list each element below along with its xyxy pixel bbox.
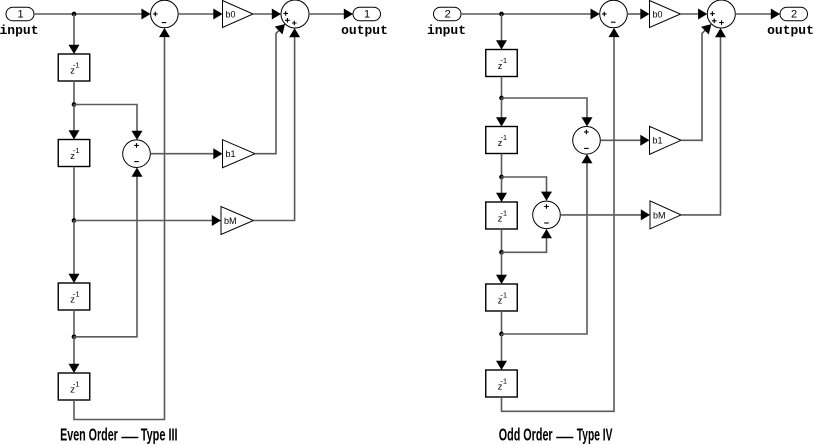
svg-text:b0: b0 bbox=[653, 9, 663, 19]
wire z1-R3 to junction H bbox=[501, 229, 503, 252]
arrow into adderR left bbox=[698, 9, 707, 20]
wire junction H to S3R bottom bbox=[502, 238, 547, 252]
arrow into z1-L4 top bbox=[69, 364, 80, 373]
wire adder to output bbox=[309, 13, 345, 15]
adder sumR (right output adder) bbox=[707, 0, 735, 28]
wire z1-L4 to sum1 bottom bbox=[74, 37, 165, 420]
arrow into bM left bbox=[212, 215, 221, 226]
node junction H bbox=[499, 250, 504, 255]
arrow into b0 left bbox=[213, 9, 222, 20]
svg-text:1: 1 bbox=[364, 9, 370, 21]
wire z1-R1 to junction F bbox=[501, 77, 503, 99]
arrow into z1-R4 top bbox=[496, 275, 507, 284]
sum1R (input subtractor right) bbox=[600, 0, 628, 28]
arrow into b1 left bbox=[213, 148, 222, 159]
svg-text:-1: -1 bbox=[73, 146, 80, 155]
wire b0 to adder bbox=[253, 13, 273, 15]
svg-text:input: input bbox=[0, 23, 39, 38]
wire junction G to subtractor S3R top bbox=[502, 177, 547, 193]
wire input to sum1 bbox=[34, 13, 143, 15]
svg-text:b1: b1 bbox=[653, 136, 663, 146]
svg-text:b0: b0 bbox=[226, 9, 236, 19]
svg-text:Type IV: Type IV bbox=[577, 426, 613, 445]
arrow into bMR left bbox=[641, 209, 650, 220]
wire S2R to b1R bbox=[600, 139, 641, 141]
gain b1 (left) bbox=[223, 140, 256, 168]
adder sum2 (left output adder) bbox=[281, 0, 309, 28]
svg-text:Type III: Type III bbox=[141, 426, 178, 445]
wire z1-L3 to junction D bbox=[73, 310, 75, 337]
arrow into b0R left bbox=[640, 9, 649, 20]
wire bM up to adder bottom bbox=[254, 37, 295, 221]
svg-text:-1: -1 bbox=[500, 376, 507, 385]
node junction B bbox=[72, 102, 77, 107]
arrow into b1R left bbox=[640, 135, 649, 146]
arrow into z1-R1 top bbox=[496, 40, 507, 49]
arrow into S1 bottom bbox=[132, 168, 143, 177]
node junction G bbox=[499, 175, 504, 180]
sum S2R (subtractor, b1 feed) bbox=[573, 127, 601, 155]
wire junction D down to z1-L4 bbox=[73, 337, 75, 365]
svg-text:b1: b1 bbox=[226, 149, 236, 159]
wire junction I down to z1-R5 bbox=[501, 334, 503, 362]
wire z1-R2 to junction G bbox=[501, 154, 503, 178]
wire b1R up to adderR diagonal bbox=[681, 30, 705, 140]
input port 1 (oval) bbox=[6, 7, 34, 21]
gain bM (right) bbox=[650, 201, 681, 229]
node junction D bbox=[72, 334, 77, 339]
delay block z1-R2 bbox=[486, 127, 518, 154]
output port 1 (oval) bbox=[353, 7, 381, 21]
wire z1-R5 to sum1R bottom bbox=[502, 37, 615, 411]
sum S1 (subtractor) bbox=[123, 140, 151, 168]
wire bMR up to adderR bottom bbox=[681, 37, 721, 215]
svg-text:output: output bbox=[767, 23, 814, 38]
arrow into z1-R5 top bbox=[496, 361, 507, 370]
wire junction H down to z1-R4 bbox=[501, 252, 503, 276]
svg-text:bM: bM bbox=[224, 216, 237, 226]
arrow into output port 2 bbox=[771, 9, 780, 20]
wire junction A down to z1-L1 bbox=[73, 14, 75, 46]
wire junction G down to z1-R3 bbox=[501, 177, 503, 194]
arrow into z1-L1 top bbox=[69, 45, 80, 54]
input port 2 (oval) bbox=[434, 7, 462, 21]
wire z1-L1 to junction B bbox=[73, 81, 75, 105]
delay block z1-L1 bbox=[58, 54, 90, 81]
delay block z1-R3 bbox=[486, 202, 518, 229]
svg-text:-1: -1 bbox=[500, 133, 507, 142]
arrow into adder bottom bbox=[289, 28, 300, 37]
gain b0 (right) bbox=[650, 1, 681, 28]
gain b0 (left) bbox=[223, 1, 254, 28]
wire junction C to bM bbox=[74, 220, 213, 222]
svg-text:2: 2 bbox=[791, 9, 797, 21]
delay block z1-R1 bbox=[486, 50, 518, 77]
node junction C bbox=[72, 218, 77, 223]
svg-text:-1: -1 bbox=[73, 289, 80, 298]
caption Odd Order Type IV bbox=[499, 426, 613, 445]
wire junction E down to z1-R1 bbox=[501, 14, 503, 42]
arrow into sum1 left bbox=[141, 9, 150, 20]
svg-text:input: input bbox=[427, 23, 466, 38]
wire S3R to bMR bbox=[560, 214, 642, 216]
arrow into z1-R3 top bbox=[496, 193, 507, 202]
svg-text:-1: -1 bbox=[73, 60, 80, 69]
arrow into z1-L2 top bbox=[69, 130, 80, 139]
wire S1 to b1 bbox=[150, 153, 214, 155]
svg-text:Even Order: Even Order bbox=[60, 426, 118, 445]
delay block z1-R4 bbox=[486, 284, 518, 311]
svg-text:output: output bbox=[341, 23, 388, 38]
wire junction F down to z1-R2 bbox=[501, 98, 503, 118]
arrow into sum1 bottom bbox=[159, 28, 170, 37]
node junction E bbox=[499, 12, 504, 17]
arrow into output port bbox=[344, 9, 353, 20]
node junction F bbox=[499, 96, 504, 101]
gain b1 (right) bbox=[650, 126, 682, 154]
arrow into S1 top bbox=[132, 131, 143, 140]
delay block z1-L4 bbox=[58, 373, 90, 400]
svg-text:2: 2 bbox=[445, 9, 451, 21]
arrow into z1-L3 top bbox=[69, 274, 80, 283]
arrow into S2R bottom bbox=[582, 154, 593, 163]
arrow into adder lower-left (diagonal) bbox=[275, 24, 285, 34]
arrow into sum1R left bbox=[591, 9, 600, 20]
sum1 (input subtractor) bbox=[151, 0, 179, 28]
svg-text:-1: -1 bbox=[500, 56, 507, 65]
svg-text:Odd Order: Odd Order bbox=[499, 426, 553, 445]
wire junction C down to z1-L3 bbox=[73, 221, 75, 276]
caption Even Order Type III bbox=[60, 426, 177, 445]
wire junction B down to z1-L2 bbox=[73, 105, 75, 132]
arrow into S3R top bbox=[541, 192, 552, 201]
arrow into adder left bbox=[272, 9, 281, 20]
svg-text:bM: bM bbox=[653, 210, 666, 220]
node junction I bbox=[499, 332, 504, 337]
arrow into z1-R2 top bbox=[496, 117, 507, 126]
output port 2 (oval) bbox=[780, 7, 808, 21]
node junction A bbox=[72, 12, 77, 17]
arrow into S2R top bbox=[582, 117, 593, 126]
arrow into sum1R bottom bbox=[609, 28, 620, 37]
delay block z1-L3 bbox=[58, 283, 90, 310]
wire junction I to S2R bottom bbox=[502, 163, 588, 334]
gain bM (left) bbox=[221, 207, 254, 235]
wire b1 up to adder diagonal bbox=[255, 30, 279, 153]
svg-text:-1: -1 bbox=[500, 290, 507, 299]
svg-text:-1: -1 bbox=[500, 208, 507, 217]
wire junction B to subtractor S1 top bbox=[74, 105, 137, 133]
wire adderR to output2 bbox=[735, 13, 772, 15]
wire b0R to adderR bbox=[681, 13, 700, 15]
wire sum1 to b0 bbox=[178, 13, 214, 15]
wire z1-R4 to junction I bbox=[501, 311, 503, 334]
wire z1-L2 to junction C bbox=[73, 167, 75, 221]
delay block z1-R5 bbox=[486, 370, 518, 397]
wire junction F to subtractor S2R top bbox=[502, 98, 588, 119]
svg-text:1: 1 bbox=[17, 9, 23, 21]
delay block z1-L2 bbox=[58, 140, 90, 167]
sum S3R (subtractor, bM feed) bbox=[533, 201, 561, 229]
wire junction D to S1 bottom bbox=[74, 176, 137, 337]
wire input2 to sum1R bbox=[461, 13, 592, 15]
arrow into adderR lower-left (diagonal) bbox=[701, 24, 711, 34]
arrow into S3R bottom bbox=[541, 229, 552, 238]
svg-text:-1: -1 bbox=[73, 379, 80, 388]
wire sum1R to b0R bbox=[627, 13, 641, 15]
arrow into adderR bottom bbox=[715, 28, 726, 37]
